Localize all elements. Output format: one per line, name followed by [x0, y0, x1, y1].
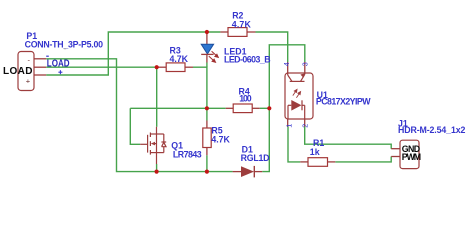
svg-text:PC817X2YIPW: PC817X2YIPW	[316, 97, 371, 107]
transistor Q1 (NMOS with body diode)	[140, 127, 166, 164]
svg-text:CONN-TH_3P-P5.00: CONN-TH_3P-P5.00	[25, 39, 103, 49]
wire: U1 pin1 to R1 (PWM)	[288, 127, 300, 162]
net marker + on pin3 wire	[58, 70, 62, 74]
svg-text:+: +	[26, 77, 31, 86]
junction at LOAD / R3 / drain	[155, 65, 159, 69]
wire: gate riser down to Q1 gate	[130, 108, 140, 144]
svg-text:RGL1D: RGL1D	[241, 153, 270, 163]
resistor R5 (vertical)	[203, 121, 211, 156]
junction at gate node / R5 top	[205, 106, 209, 110]
svg-text:LR7843: LR7843	[173, 150, 202, 160]
wire: R5 bottom green	[206, 155, 208, 171]
net marker - on pin1 wire	[46, 56, 49, 57]
wire: bottom rail after D1 up to jog and U1 pin3	[262, 45, 305, 172]
wire: drain riser from LOAD junction	[156, 67, 158, 127]
diode D1	[233, 166, 263, 178]
svg-text:PWM: PWM	[402, 152, 421, 162]
svg-text:4.7K: 4.7K	[232, 20, 252, 30]
wire: R1 right to J1 PWM pin jog	[335, 157, 391, 162]
wire: minus wire from P1 pin1 down to bottom rail	[46, 59, 232, 172]
svg-text:3: 3	[300, 62, 309, 66]
junction at source / bottom rail	[155, 170, 159, 174]
connector J1	[391, 140, 421, 168]
svg-text:LOAD: LOAD	[47, 58, 70, 69]
resistor R1	[300, 158, 335, 167]
resistor R3	[157, 63, 193, 72]
junction at R5 bottom / bottom rail	[205, 170, 209, 174]
wire: R5 top green	[206, 108, 208, 120]
resistor R4	[226, 104, 260, 113]
svg-text:4: 4	[282, 62, 291, 66]
svg-text:1: 1	[285, 124, 294, 128]
wire: U1 pin2 to J1 GND pin jog	[305, 127, 392, 149]
LED LED1	[201, 32, 218, 63]
svg-text:HDR-M-2.54_1x2: HDR-M-2.54_1x2	[398, 125, 465, 135]
op-amp U1 optocoupler PC817	[285, 62, 313, 127]
svg-text:2: 2	[301, 124, 310, 128]
svg-text:4.7K: 4.7K	[211, 134, 230, 144]
wire: R4 right to riser	[260, 107, 270, 109]
wire: top rail right of R2 to U1 pin4	[256, 32, 288, 62]
wire: plus rail from P1 pin3 up and across top	[46, 32, 220, 75]
junction at R4 right / D1 riser	[267, 106, 271, 110]
wire: gate node row to R4	[130, 107, 225, 109]
connector P1	[3, 52, 46, 91]
pin number 1 (faint)	[64, 48, 66, 49]
svg-text:LOAD: LOAD	[3, 66, 33, 77]
wire: LED1 cathode short green	[206, 63, 208, 68]
svg-text:1k: 1k	[310, 147, 320, 157]
svg-text:LED-0603_B: LED-0603_B	[224, 55, 271, 65]
wire: LOAD net from P1 pin2 to R3	[46, 66, 157, 68]
svg-text:100: 100	[239, 94, 252, 104]
resistor R2	[220, 28, 255, 37]
junction at top rail / LED1 anode	[205, 30, 209, 34]
wire: R3 right to LED1 cathode column down to gate row	[193, 67, 207, 108]
svg-text:4.7K: 4.7K	[170, 54, 189, 64]
wire: source drop green	[156, 164, 158, 172]
